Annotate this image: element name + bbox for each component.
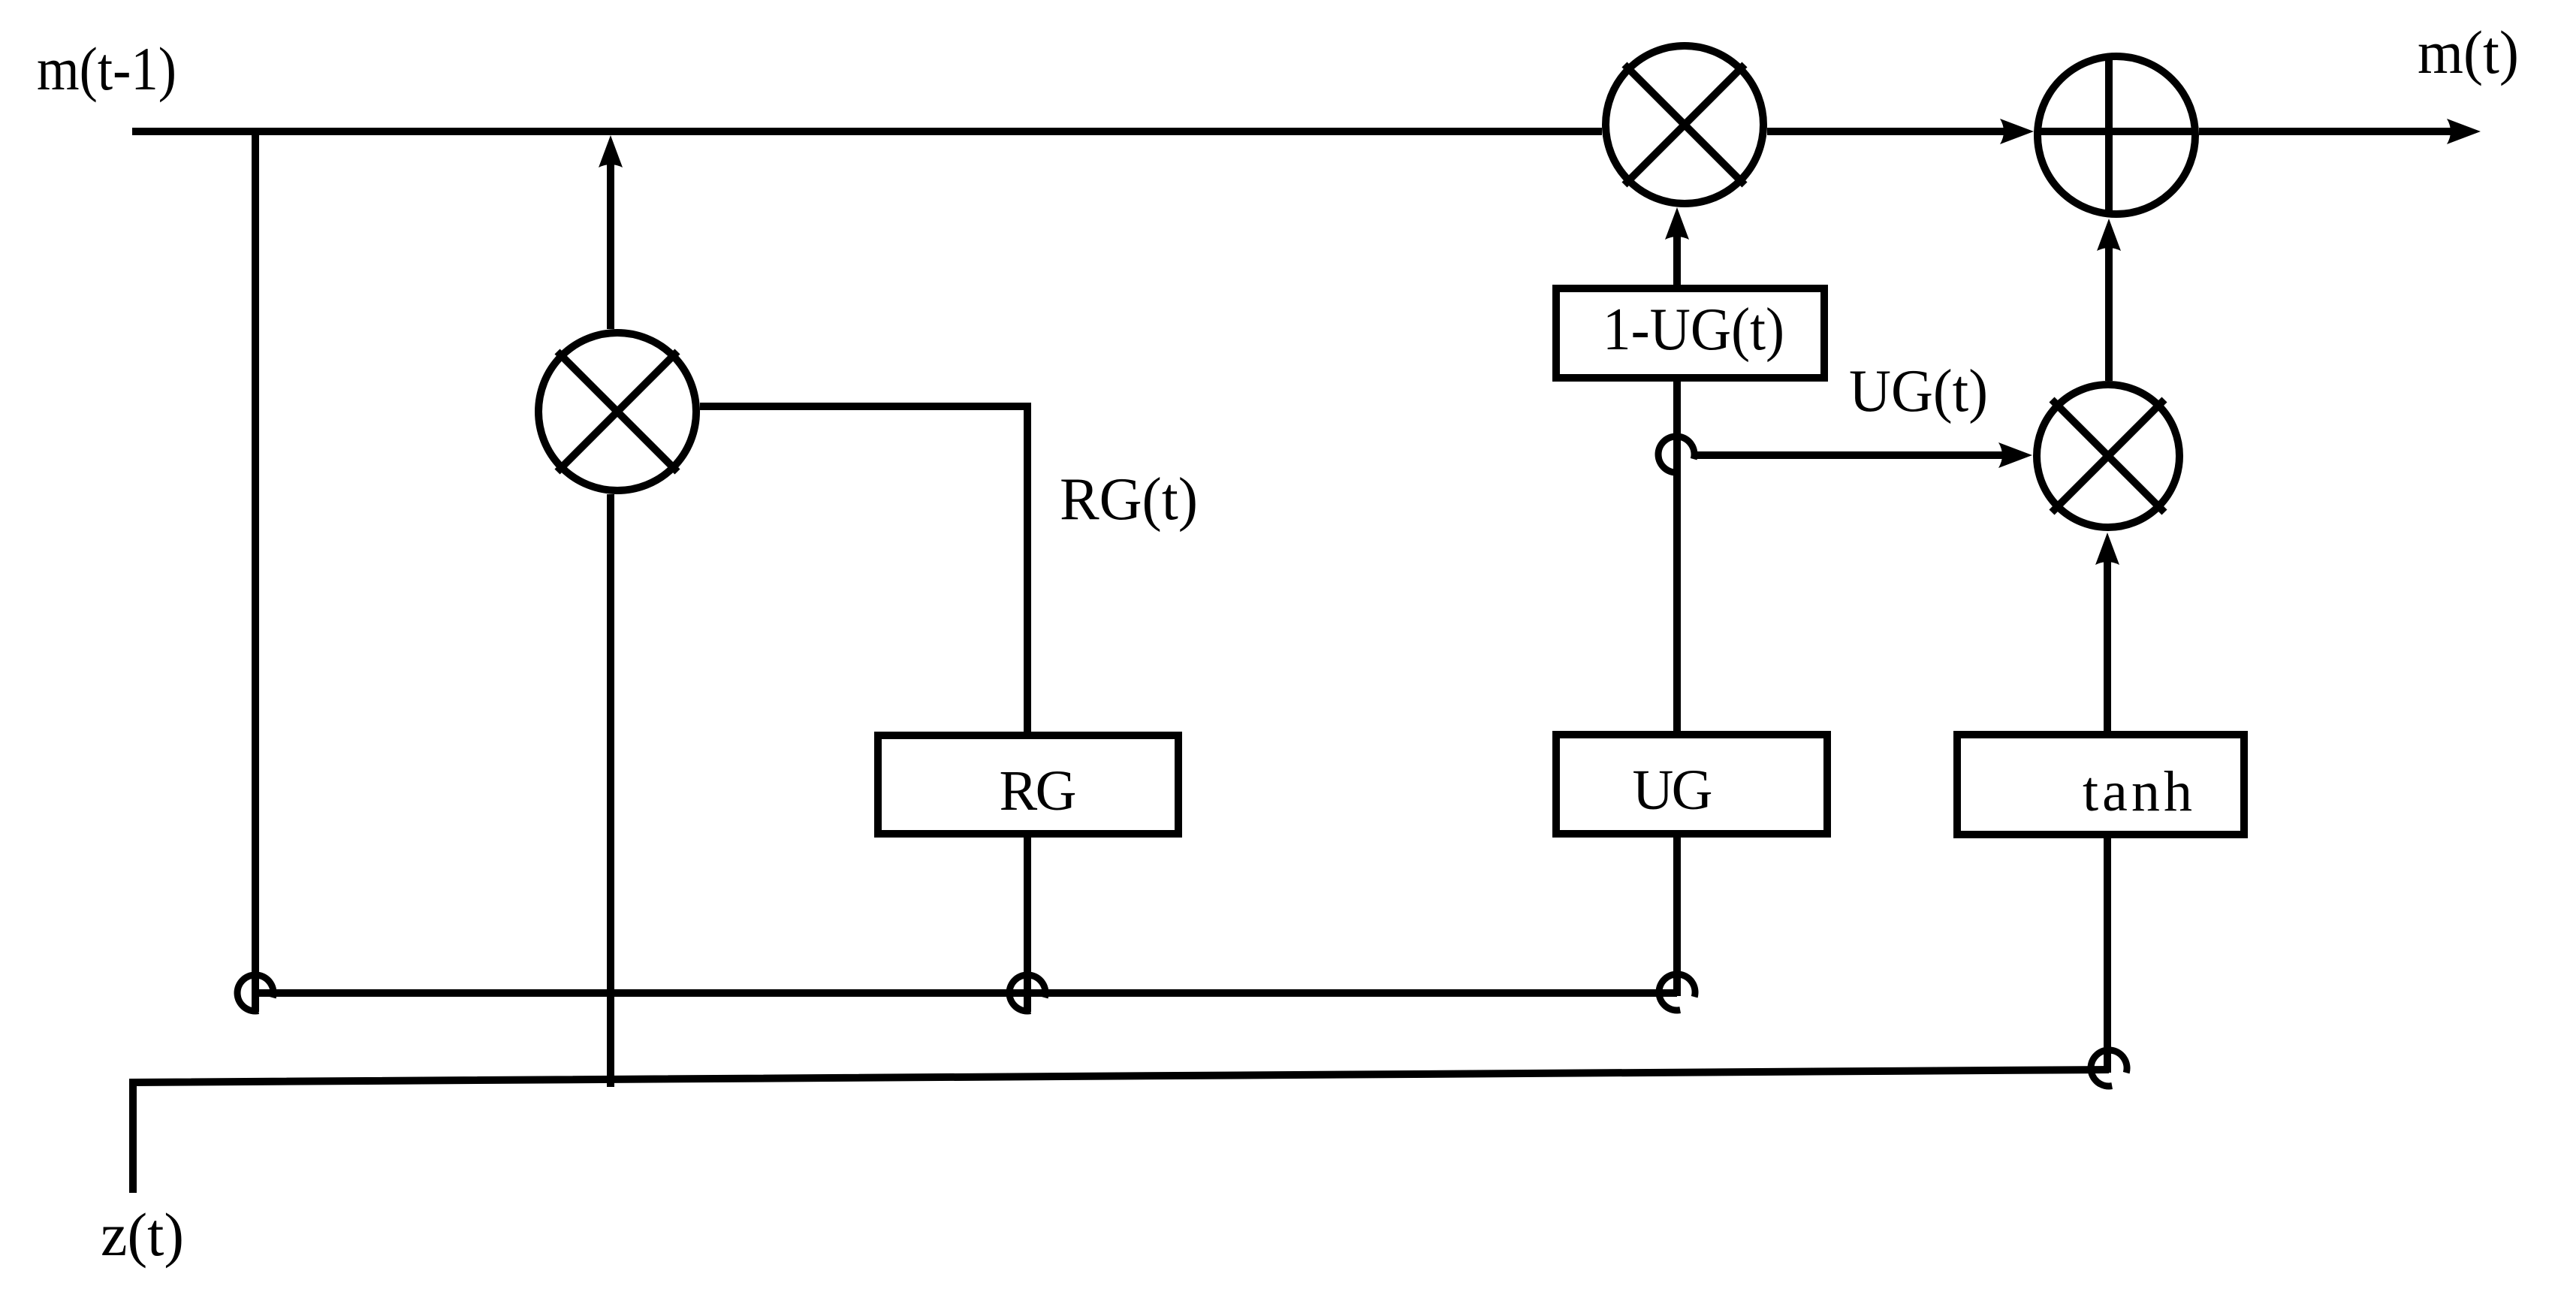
junction ring E UG output branch [1658, 436, 1694, 472]
left multiplier X diagonal 1 [557, 352, 677, 472]
wire UG(t) branch arrow to right multiplier [1696, 451, 2004, 459]
wire right multiplier to adder [2105, 244, 2113, 381]
arrowhead into right multiplier [1998, 442, 2032, 468]
junction ring D at z-line right end [2091, 1050, 2127, 1086]
wire z-line vertical stub at left [133, 1070, 2109, 1193]
wire 1-UG box to top multiplier [1673, 233, 1681, 285]
arrowhead into adder bottom [2097, 219, 2121, 251]
svg-text:RG: RG [1000, 759, 1077, 823]
wire east line from left multiplier to RG [700, 406, 1027, 732]
top multiplier X diagonal 1 [1624, 65, 1745, 185]
svg-text:1-UG(t): 1-UG(t) [1603, 297, 1784, 363]
arrowhead output m(t) [2447, 119, 2481, 144]
junction ring B below RG [1009, 975, 1045, 1011]
junction ring A at bus start [237, 975, 273, 1011]
svg-text:m(t-1): m(t-1) [37, 35, 176, 103]
adder circle [2038, 56, 2195, 214]
svg-text:UG: UG [1633, 759, 1713, 822]
adder plus horizontal bar (main line through) [2035, 128, 2197, 135]
wire tanh bottom to z-line [2104, 838, 2111, 1073]
wire UG box top to 1-UG(t) box bottom [1673, 382, 1681, 731]
left multiplier circle [538, 333, 696, 491]
arrowhead into m-line [599, 135, 623, 168]
adder plus vertical bar [2105, 53, 2113, 217]
top multiplier circle [1606, 46, 1763, 204]
arrowhead into adder left [2000, 119, 2034, 144]
left multiplier X diagonal 2 [557, 352, 677, 472]
UG box [1556, 735, 1827, 834]
wire RG box bottom to bus [1024, 838, 1031, 1012]
arrowhead into right multiplier bottom [2095, 533, 2119, 565]
RG box [878, 735, 1178, 834]
wire bottom bus m(t-1) [255, 989, 1677, 997]
wire tanh top to right multiplier [2104, 558, 2111, 731]
wire main m-line segment 1 [132, 128, 1602, 135]
1-UG(t) box [1556, 288, 1824, 378]
arrowhead into top multiplier [1665, 207, 1689, 240]
top multiplier X diagonal 2 [1624, 65, 1745, 185]
svg-text:z(t): z(t) [101, 1200, 184, 1269]
wire main m-line segment 2 (top multiplier to adder) [1767, 128, 2005, 135]
wire left multiplier bottom input from z-line [607, 494, 614, 1087]
wire UG box bottom to bus [1673, 838, 1681, 996]
right multiplier X diagonal 2 [2052, 400, 2164, 512]
wire left branch down from m-line [252, 131, 259, 1012]
junction ring C below UG (bus end) [1659, 974, 1695, 1010]
svg-text:m(t): m(t) [2418, 18, 2519, 86]
right multiplier X diagonal 1 [2052, 400, 2164, 512]
wire main m-line segment 3 (adder to output) [2199, 128, 2453, 135]
tanh box [1957, 735, 2244, 835]
wire up from left multiplier [607, 159, 614, 329]
svg-text:RG(t): RG(t) [1060, 466, 1198, 533]
right multiplier circle [2037, 385, 2179, 527]
svg-text:UG(t): UG(t) [1849, 358, 1988, 424]
